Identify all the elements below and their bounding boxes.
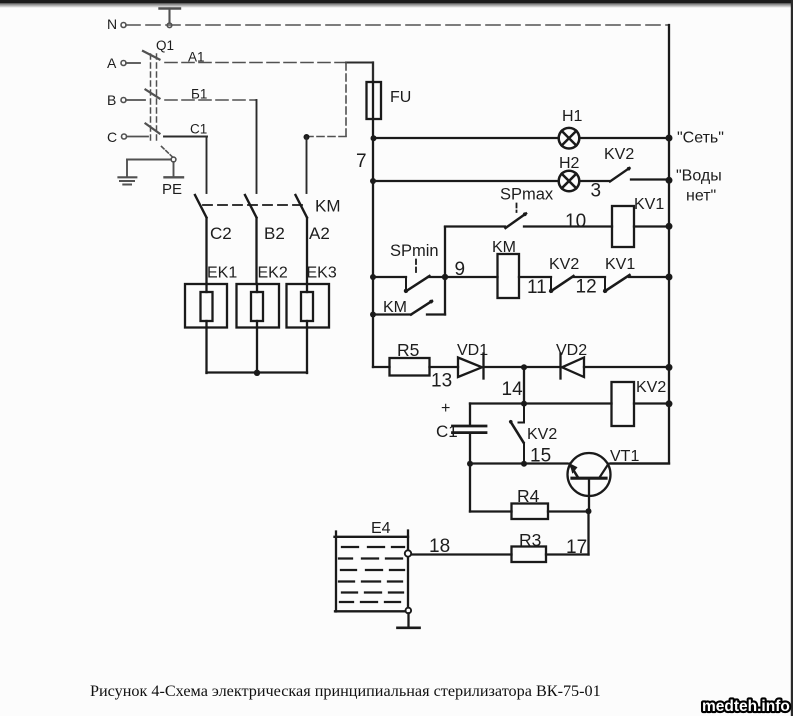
svg-text:14: 14 [502, 379, 524, 400]
svg-text:Б1: Б1 [191, 87, 207, 102]
wire EK3 bottom [306, 328, 308, 374]
VT1 collector [600, 464, 609, 478]
wire bus to R5 [373, 366, 390, 368]
diode VD1 [458, 358, 482, 378]
svg-text:SPmin: SPmin [390, 242, 439, 260]
wire C2 lead [205, 218, 207, 284]
node 9 [442, 274, 448, 280]
wire VT1 base [588, 480, 590, 512]
relay coil KV1 [612, 206, 634, 247]
svg-text:EK2: EK2 [258, 265, 288, 282]
svg-text:нет": нет" [686, 188, 716, 205]
svg-text:С1: С1 [190, 122, 207, 137]
svg-text:C2: C2 [210, 224, 232, 243]
wire R5 to VD1 [430, 366, 459, 368]
contact KV2 (discharge) [523, 404, 525, 423]
terminal B [121, 98, 145, 103]
svg-text:N: N [107, 16, 117, 32]
VT1 base bar [572, 477, 606, 480]
svg-text:3: 3 [591, 181, 602, 202]
ground under tank [407, 613, 409, 627]
svg-text:VT1: VT1 [610, 448, 639, 465]
terminal A [121, 61, 140, 66]
svg-text:B: B [107, 92, 116, 108]
svg-text:13: 13 [431, 371, 452, 392]
terminal N [121, 23, 126, 28]
wire C1 to R4 [469, 464, 471, 512]
wire H1 row left [376, 137, 559, 139]
svg-text:Q1: Q1 [156, 38, 174, 53]
wire right bus [611, 25, 670, 464]
lamp H1 [559, 128, 580, 149]
svg-text:A: A [107, 55, 117, 71]
node star point [254, 370, 260, 376]
resistor R3 [512, 547, 547, 563]
wire phase C drop [206, 137, 208, 194]
caption [90, 682, 601, 701]
lamp H2 [559, 171, 580, 192]
svg-text:А1: А1 [188, 50, 205, 65]
wire node9 to KM coil [445, 276, 498, 278]
node at 307,137 [304, 134, 310, 140]
svg-text:H1: H1 [562, 108, 583, 125]
svg-text:10: 10 [565, 211, 586, 232]
wire R4 to node 17 [548, 510, 589, 512]
wire left bus [372, 138, 374, 367]
contact KV2 (water lamp) [610, 168, 630, 182]
wire row 15 [470, 462, 568, 464]
svg-text:KV1: KV1 [605, 256, 635, 273]
svg-text:KV2: KV2 [636, 379, 666, 396]
node KV2 coil to bus [666, 400, 673, 407]
svg-text:KV2: KV2 [549, 256, 579, 273]
wire to R4 [470, 510, 512, 512]
wire node14 drop [523, 367, 525, 404]
svg-text:PE: PE [162, 181, 182, 198]
wire VD1 to node 14 [484, 366, 524, 368]
wire A2 lead [306, 218, 308, 284]
wire base drop [587, 512, 589, 555]
svg-text:medteh.info: medteh.info [702, 698, 790, 715]
svg-text:EK1: EK1 [207, 265, 237, 282]
svg-text:11: 11 [527, 277, 547, 298]
wire phase B drop [256, 100, 258, 193]
node 14 [521, 364, 527, 370]
wire VT1 collector to bus [611, 462, 670, 464]
svg-text:A2: A2 [309, 224, 330, 243]
switch Q1 [143, 51, 160, 140]
svg-text:H2: H2 [559, 155, 580, 172]
wire KV1 coil to bus [634, 225, 669, 227]
svg-text:18: 18 [429, 536, 450, 557]
wire row to KV2 coil [470, 402, 612, 404]
svg-text:KV2: KV2 [527, 426, 557, 443]
relay coil KV2 [612, 382, 635, 426]
page right border [791, 0, 793, 716]
wire node 14 to VD2 [524, 366, 560, 368]
svg-text:EK3: EK3 [307, 265, 337, 282]
svg-text:KM: KM [315, 197, 341, 216]
wire B2 lead [255, 218, 257, 284]
svg-text:KV1: KV1 [634, 196, 664, 213]
wire VD2 to bus [584, 366, 669, 368]
wire node 17 to R3 [546, 553, 589, 555]
wire phase A row [165, 62, 347, 64]
wire H1 row right [580, 137, 670, 139]
wire phase B row [165, 99, 256, 101]
terminal C [122, 134, 149, 139]
wire KV2 coil to bus [634, 402, 669, 404]
wire EK2 bottom [256, 328, 258, 374]
wire phase A bypass to A2 [345, 63, 347, 137]
resistor R5 [390, 358, 430, 376]
svg-text:E4: E4 [371, 520, 391, 537]
wire SPmax drop [444, 227, 446, 315]
svg-text:FU: FU [390, 89, 411, 106]
contactor KM main contacts [195, 195, 207, 218]
svg-text:"Воды: "Воды [676, 168, 722, 185]
VT1 emitter with arrow [570, 464, 579, 478]
wire phase A drop [306, 137, 308, 193]
svg-text:SPmax: SPmax [500, 186, 554, 204]
wire R3 to tank terminal (node 18) [411, 553, 512, 555]
svg-text:7: 7 [356, 151, 367, 172]
ground PE symbols [119, 147, 184, 185]
fuse FU [372, 63, 374, 83]
svg-text:KV2: KV2 [604, 146, 634, 163]
svg-text:B2: B2 [264, 224, 285, 243]
KM mechanical link [203, 204, 302, 206]
wire EK1 bottom [205, 328, 207, 374]
transistor VT1 [568, 453, 611, 496]
svg-text:+: + [441, 400, 450, 417]
wire phase C row [164, 136, 207, 138]
node VD2 row to bus [666, 364, 673, 371]
wire N row [126, 24, 668, 26]
svg-text:C: C [107, 129, 117, 145]
wire H2 to contact [580, 180, 610, 182]
node KV1 to bus [666, 223, 673, 230]
node fuse bottom [371, 135, 377, 141]
tank bottom terminal [406, 608, 412, 614]
svg-text:"Сеть": "Сеть" [677, 130, 724, 147]
diode VD2 [559, 354, 561, 379]
svg-text:12: 12 [576, 277, 597, 298]
wire heater star bus [207, 371, 308, 373]
node H1 to bus [666, 135, 673, 142]
resistor R4 [512, 504, 549, 520]
water level dashes [339, 547, 404, 602]
wire H2 row left [376, 180, 559, 182]
node T mark on N wire [160, 9, 181, 28]
